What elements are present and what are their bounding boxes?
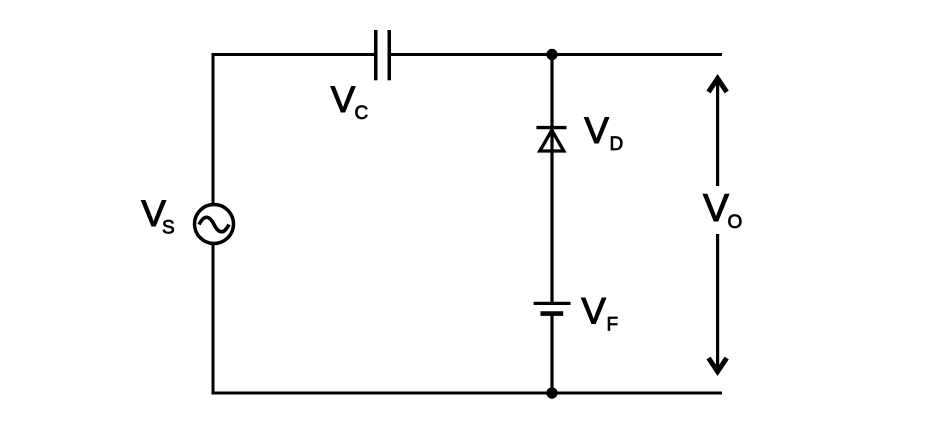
wire top-left horizontal segment <box>212 53 375 56</box>
svg-text:V: V <box>703 187 729 230</box>
wire middle branch upper segment <box>550 53 553 303</box>
svg-text:V: V <box>581 291 606 332</box>
voltage source VS (AC source circle with sine) <box>195 205 234 244</box>
arrow VO upper arrowhead <box>709 79 727 93</box>
wire bottom horizontal segment <box>212 392 723 395</box>
node junction bottom <box>546 387 557 398</box>
arrow VO upper segment shaft <box>716 78 719 186</box>
svg-text:C: C <box>355 103 369 124</box>
arrow VO lower arrowhead <box>709 358 727 372</box>
wire top-right horizontal segment <box>391 53 722 56</box>
svg-text:D: D <box>610 134 624 155</box>
wire left vertical lower segment <box>212 244 215 395</box>
capacitor VC plate right <box>388 30 392 80</box>
svg-text:O: O <box>728 212 743 233</box>
diode VD (cathode bar + triangle) <box>536 128 566 151</box>
wire middle branch lower segment <box>550 314 553 395</box>
arrow VO lower segment shaft <box>716 234 719 372</box>
svg-text:V: V <box>331 79 356 120</box>
node junction top <box>546 49 557 60</box>
wire left vertical upper segment <box>212 53 215 204</box>
svg-text:V: V <box>584 110 609 151</box>
svg-text:S: S <box>162 218 175 239</box>
capacitor VC plate left <box>374 30 378 80</box>
battery cell VF long plate <box>534 302 571 305</box>
svg-text:F: F <box>607 315 619 336</box>
battery cell VF short thick plate <box>541 311 564 316</box>
